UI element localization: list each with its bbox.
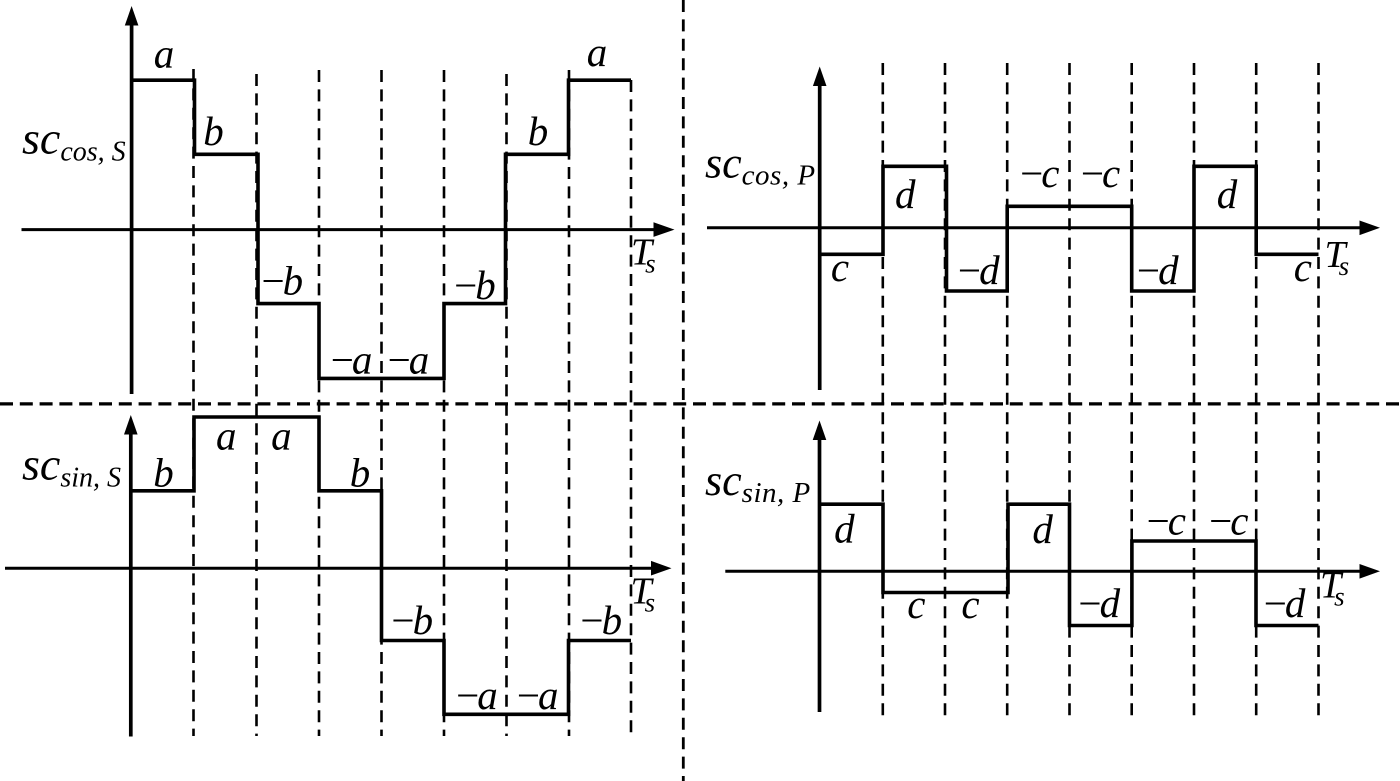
waveform sc_sin,S: [131, 417, 631, 714]
horizontal dashed divider: [0, 402, 1400, 405]
x-axis sc_sin,P: [725, 570, 1362, 573]
svg-text:Ts: Ts: [631, 232, 656, 279]
y-axis sc_cos,S: [130, 23, 134, 394]
svg-text:scsin, S: scsin, S: [22, 439, 121, 494]
grid dashed vertical t6 (left): [505, 74, 508, 736]
svg-text:a: a: [587, 29, 608, 75]
central vertical dashed divider: [682, 0, 685, 781]
svg-text:−d: −d: [1134, 247, 1179, 293]
grid dashed vertical t7 (left): [568, 70, 571, 736]
svg-text:c: c: [1294, 244, 1312, 290]
grid dashed vertical t4 (left): [380, 70, 383, 736]
grid dashed vertical t2 (right): [944, 63, 947, 720]
grid dashed vertical t3 (left): [318, 70, 321, 736]
svg-text:−c: −c: [1018, 150, 1060, 196]
svg-text:−b: −b: [452, 262, 496, 308]
y-axis arrow sc_cos,S: [125, 6, 139, 26]
grid dashed vertical t5 (right): [1130, 63, 1133, 720]
svg-text:sccos, P: sccos, P: [705, 138, 816, 191]
x-axis arrow sc_sin,S: [651, 561, 672, 576]
svg-text:d: d: [1032, 506, 1053, 552]
svg-text:sccos, S: sccos, S: [22, 113, 126, 168]
svg-text:d: d: [1217, 171, 1238, 217]
svg-text:c: c: [961, 581, 979, 627]
x-axis sc_cos,S: [22, 228, 658, 231]
svg-text:−c: −c: [1144, 498, 1186, 544]
svg-text:scsin, P: scsin, P: [705, 456, 811, 509]
y-axis arrow sc_sin,S: [124, 415, 138, 435]
waveform sc_cos,P: [820, 166, 1319, 291]
svg-text:−b: −b: [389, 597, 433, 643]
x-axis arrow sc_cos,P: [1360, 221, 1381, 236]
y-axis arrow sc_cos,P: [813, 67, 827, 87]
svg-text:a: a: [216, 412, 237, 458]
svg-text:Ts: Ts: [631, 571, 656, 618]
svg-text:c: c: [831, 244, 849, 290]
waveform sc_cos,S: [132, 80, 631, 378]
svg-text:−d: −d: [1076, 580, 1121, 626]
svg-text:c: c: [907, 581, 925, 627]
y-axis sc_sin,S: [129, 432, 133, 737]
grid dashed vertical t8 (left): [630, 80, 633, 736]
grid dashed vertical t2 (left): [255, 74, 258, 736]
svg-text:Ts: Ts: [1325, 234, 1350, 281]
svg-text:−a: −a: [328, 337, 371, 383]
svg-text:−a: −a: [454, 672, 497, 718]
svg-text:b: b: [153, 449, 174, 495]
grid dashed vertical t1 (right): [881, 63, 884, 720]
svg-text:b: b: [528, 108, 549, 154]
y-axis sc_sin,P: [818, 438, 822, 712]
y-axis arrow sc_sin,P: [813, 421, 827, 441]
svg-text:−a: −a: [514, 672, 557, 718]
waveform sc_sin,P: [820, 504, 1319, 625]
grid dashed vertical t1 (left): [192, 69, 195, 736]
svg-text:a: a: [271, 412, 292, 458]
grid dashed vertical t6 (right): [1193, 63, 1196, 720]
x-axis arrow sc_cos,S: [654, 222, 675, 237]
svg-text:−d: −d: [1261, 580, 1306, 626]
svg-text:a: a: [154, 31, 175, 77]
svg-text:−a: −a: [385, 337, 428, 383]
grid dashed vertical t5 (left): [443, 70, 446, 736]
grid dashed vertical t4 (right): [1068, 63, 1071, 720]
svg-text:−b: −b: [259, 258, 303, 304]
svg-text:d: d: [834, 506, 855, 552]
svg-text:b: b: [203, 108, 224, 154]
svg-text:b: b: [350, 449, 371, 495]
y-axis sc_cos,P: [818, 84, 822, 390]
svg-text:−c: −c: [1078, 150, 1120, 196]
svg-text:Ts: Ts: [1320, 565, 1345, 612]
x-axis sc_sin,S: [5, 567, 654, 570]
svg-text:−b: −b: [578, 597, 622, 643]
svg-text:−d: −d: [955, 247, 1000, 293]
x-axis sc_cos,P: [707, 226, 1362, 229]
grid dashed vertical t8 (right): [1317, 63, 1320, 720]
svg-text:d: d: [895, 171, 916, 217]
grid dashed vertical t3 (right): [1006, 63, 1009, 720]
x-axis arrow sc_sin,P: [1360, 564, 1381, 579]
grid dashed vertical t7 (right): [1255, 63, 1258, 720]
svg-text:−c: −c: [1207, 498, 1249, 544]
